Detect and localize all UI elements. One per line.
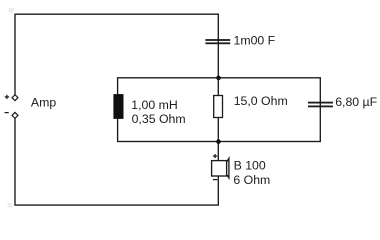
- svg-text:6,80 µF: 6,80 µF: [335, 95, 377, 109]
- svg-text:1m00 F: 1m00 F: [234, 33, 276, 47]
- svg-text:0,35 Ohm: 0,35 Ohm: [132, 112, 186, 126]
- svg-text:Amp: Amp: [31, 96, 56, 110]
- svg-text:15,0 Ohm: 15,0 Ohm: [234, 94, 288, 108]
- svg-text:1,00 mH: 1,00 mH: [131, 98, 177, 112]
- svg-text:B 100: B 100: [234, 158, 266, 172]
- svg-text:6 Ohm: 6 Ohm: [233, 173, 270, 187]
